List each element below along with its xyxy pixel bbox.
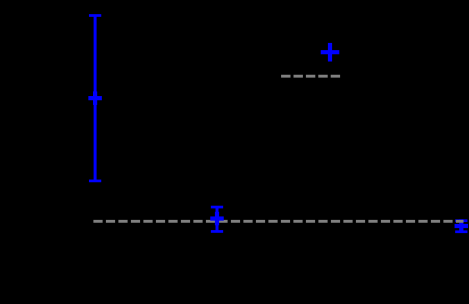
short gray dashed reference line (upper right) [281, 75, 340, 78]
error bar 3 plus marker [210, 216, 224, 220]
error bar point 4 (right edge, clipped) [455, 219, 469, 233]
error bar 4 top cap [455, 219, 467, 222]
error bar point 3 (bottom middle) [210, 207, 224, 231]
error bar 4 plus marker [455, 224, 469, 228]
error bar 1 top cap [89, 14, 101, 17]
error bar 4 bottom cap [455, 230, 467, 233]
wire: error bar 3 vertical line [216, 207, 219, 231]
error bar 1 bottom cap [89, 180, 101, 183]
wire: error bar 1 vertical line [94, 16, 97, 181]
wire: error bar 4 vertical line [460, 221, 463, 232]
large plus marker point 2 (upper right) [321, 43, 340, 62]
error bar 3 bottom cap [211, 230, 223, 233]
long gray dashed reference line (bottom) [93, 220, 463, 223]
error bar 3 top cap [211, 206, 223, 209]
error bar point 1 (tall, left) [88, 16, 102, 181]
error bar 1 plus marker [88, 96, 102, 100]
